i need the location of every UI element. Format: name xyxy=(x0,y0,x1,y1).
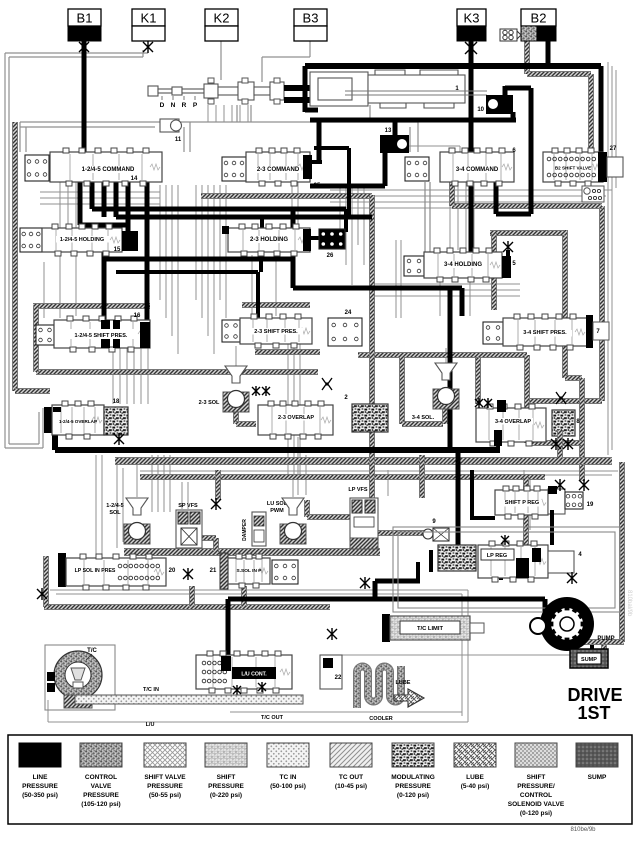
svg-text:(0-120 psi): (0-120 psi) xyxy=(397,792,429,799)
svg-text:16: 16 xyxy=(134,313,141,319)
svg-text:SHIFT: SHIFT xyxy=(527,774,546,781)
svg-text:(105-120 psi): (105-120 psi) xyxy=(81,801,120,808)
svg-text:B2 SHIFT VALVE: B2 SHIFT VALVE xyxy=(555,166,591,171)
svg-text:SOL: SOL xyxy=(109,510,121,516)
svg-text:3-4 HOLDING: 3-4 HOLDING xyxy=(444,262,482,268)
svg-text:SHIFT: SHIFT xyxy=(217,774,236,781)
svg-text:1-2/4-5 HOLDING: 1-2/4-5 HOLDING xyxy=(60,237,104,243)
svg-text:1-2/4-5 SHIFT PRES.: 1-2/4-5 SHIFT PRES. xyxy=(75,333,128,339)
svg-text:LINE: LINE xyxy=(33,774,48,781)
svg-text:13: 13 xyxy=(385,128,392,134)
svg-text:1-2/4-5 OVERLAP: 1-2/4-5 OVERLAP xyxy=(59,419,97,424)
svg-text:2-3 SOL: 2-3 SOL xyxy=(199,400,220,406)
svg-text:20: 20 xyxy=(169,568,176,574)
svg-text:N: N xyxy=(171,102,176,109)
svg-text:DRIVE: DRIVE xyxy=(567,685,622,705)
svg-text:2-3 HOLDING: 2-3 HOLDING xyxy=(250,237,288,243)
svg-text:27: 27 xyxy=(610,146,617,152)
svg-text:K1: K1 xyxy=(141,11,157,26)
svg-text:CONTROL: CONTROL xyxy=(520,792,552,799)
svg-text:K2: K2 xyxy=(214,11,230,26)
svg-text:11: 11 xyxy=(175,137,182,143)
svg-text:18: 18 xyxy=(113,399,120,405)
svg-text:19: 19 xyxy=(587,502,594,508)
svg-text:1-2/4-5 COMMAND: 1-2/4-5 COMMAND xyxy=(82,167,135,173)
svg-text:VALVE: VALVE xyxy=(91,783,112,790)
svg-text:25: 25 xyxy=(314,183,321,189)
svg-text:K3: K3 xyxy=(464,11,480,26)
svg-text:24: 24 xyxy=(345,310,352,316)
svg-text:2-3 SHIFT PRES.: 2-3 SHIFT PRES. xyxy=(254,329,298,335)
svg-text:14: 14 xyxy=(131,176,138,182)
svg-text:D: D xyxy=(160,102,165,109)
svg-text:MODULATING: MODULATING xyxy=(391,774,435,781)
svg-text:10: 10 xyxy=(477,107,484,113)
svg-text:COOLER: COOLER xyxy=(369,716,393,722)
svg-text:T/C LIMIT: T/C LIMIT xyxy=(417,626,444,632)
svg-text:3-4 SHIFT PRES.: 3-4 SHIFT PRES. xyxy=(523,330,567,336)
svg-text:R: R xyxy=(182,102,187,109)
svg-text:3-4 COMMAND: 3-4 COMMAND xyxy=(456,167,499,173)
svg-text:T/C IN: T/C IN xyxy=(143,687,159,693)
svg-text:CONTROL: CONTROL xyxy=(85,774,117,781)
svg-text:TC OUT: TC OUT xyxy=(339,774,363,781)
svg-text:21: 21 xyxy=(210,568,217,574)
svg-text:3-4 OVERLAP: 3-4 OVERLAP xyxy=(495,419,531,425)
svg-text:L/U: L/U xyxy=(146,722,155,728)
svg-text:SHIFT P REG: SHIFT P REG xyxy=(505,500,539,506)
svg-text:TC IN: TC IN xyxy=(280,774,297,781)
svg-text:2-3 OVERLAP: 2-3 OVERLAP xyxy=(278,415,314,421)
svg-text:(50-350 psi): (50-350 psi) xyxy=(22,792,58,799)
svg-text:PWM: PWM xyxy=(270,508,284,514)
svg-text:P: P xyxy=(193,102,198,109)
svg-text:SP VFS: SP VFS xyxy=(178,503,198,509)
svg-text:S.SOL IN P: S.SOL IN P xyxy=(237,568,263,574)
svg-text:(50-55 psi): (50-55 psi) xyxy=(149,792,181,799)
svg-text:(0-120 psi): (0-120 psi) xyxy=(520,810,552,817)
svg-text:1ST: 1ST xyxy=(577,703,610,723)
svg-text:SUMP: SUMP xyxy=(581,657,597,663)
svg-text:PRESSURE: PRESSURE xyxy=(83,792,119,799)
svg-text:PRESSURE: PRESSURE xyxy=(395,783,431,790)
svg-text:2-3 COMMAND: 2-3 COMMAND xyxy=(257,167,300,173)
svg-text:(0-220 psi): (0-220 psi) xyxy=(210,792,242,799)
svg-text:PUMP: PUMP xyxy=(597,636,614,642)
svg-text:(10-45 psi): (10-45 psi) xyxy=(335,783,367,790)
svg-text:810bal/9b: 810bal/9b xyxy=(626,590,632,617)
svg-text:B1: B1 xyxy=(77,11,93,26)
svg-text:PRESSURE: PRESSURE xyxy=(147,783,183,790)
svg-text:3-4 SOL.: 3-4 SOL. xyxy=(412,415,435,421)
svg-text:LUBE: LUBE xyxy=(466,774,484,781)
svg-text:SHIFT VALVE: SHIFT VALVE xyxy=(144,774,186,781)
svg-text:DAMPER: DAMPER xyxy=(242,519,248,541)
svg-text:PRESSURE: PRESSURE xyxy=(208,783,244,790)
svg-text:L/U CONT.: L/U CONT. xyxy=(241,672,267,678)
svg-text:LP SOL IN PRES: LP SOL IN PRES xyxy=(75,568,116,574)
svg-text:810be/9b: 810be/9b xyxy=(570,827,596,833)
svg-text:PRESSURE/: PRESSURE/ xyxy=(517,783,555,790)
svg-text:LP REG: LP REG xyxy=(487,553,507,559)
svg-text:LUBE: LUBE xyxy=(396,680,411,686)
svg-text:T/C OUT: T/C OUT xyxy=(261,715,284,721)
svg-text:T/C: T/C xyxy=(87,648,97,654)
svg-text:(5-40 psi): (5-40 psi) xyxy=(461,783,490,790)
svg-text:LP VFS: LP VFS xyxy=(348,487,367,493)
svg-text:B2: B2 xyxy=(531,11,547,26)
svg-text:1-2/4-5: 1-2/4-5 xyxy=(106,503,123,509)
svg-text:SOLENOID VALVE: SOLENOID VALVE xyxy=(508,801,565,808)
svg-text:PRESSURE: PRESSURE xyxy=(22,783,58,790)
svg-text:B3: B3 xyxy=(303,11,319,26)
svg-text:26: 26 xyxy=(327,253,334,259)
svg-text:(50-100 psi): (50-100 psi) xyxy=(270,783,306,790)
svg-text:22: 22 xyxy=(335,675,342,681)
svg-text:15: 15 xyxy=(114,247,121,253)
svg-text:SUMP: SUMP xyxy=(588,774,607,781)
